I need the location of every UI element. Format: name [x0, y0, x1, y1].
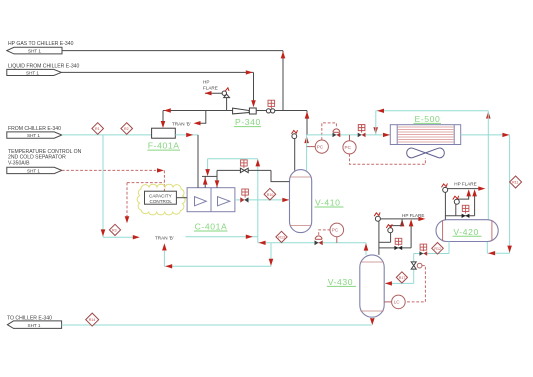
- wire: drop x=198 into compressor: [197, 135, 199, 188]
- svg-text:CONTROL: CONTROL: [150, 199, 173, 204]
- label F-401A: [147, 141, 180, 151]
- wire: signal drop to capacity control: [163, 170, 165, 191]
- wire: PSV#2 V-420 outlet: [457, 196, 469, 199]
- node R14 diamond: [86, 313, 99, 326]
- arrow right into E-500: [383, 133, 390, 137]
- wire: return to V-420 bottom y=253.2: [487, 252, 509, 254]
- wire: E-500 top line y=110.8: [376, 110, 489, 112]
- node: off-page connector TO CHILLER E-340 SHT 1: [7, 315, 62, 328]
- compressor C-401A body: [187, 188, 235, 212]
- svg-text:R13: R13: [278, 236, 285, 240]
- relief valve PSV V-420 #1: [442, 184, 448, 193]
- svg-text:V-430: V-430: [328, 277, 353, 287]
- arrow down into F-401A: [161, 121, 166, 128]
- valve (closed) on V-430 bypass: [394, 246, 402, 250]
- wire: V-430 flare bypass y=247.9: [379, 247, 411, 249]
- wire: recycle drop x=207.6: [207, 159, 209, 170]
- node: off-page connector HP GAS TO CHILLER E-340 SHT 1: [7, 41, 74, 54]
- arrow up toward TRAN B label: [162, 243, 167, 250]
- arrow down into P-340 inlet box: [251, 100, 256, 107]
- arrow right to TRAN B: [133, 235, 140, 239]
- wire: riser3 V-420: [474, 196, 476, 216]
- svg-text:R2: R2: [124, 127, 129, 131]
- wire: train B return riser x=164.4: [163, 251, 165, 266]
- arrow up on recycle riser: [256, 159, 261, 166]
- arrow down V-430 bottoms: [370, 318, 375, 325]
- exchanger E-500: [390, 125, 460, 145]
- svg-text:HP: HP: [203, 80, 209, 85]
- node: off-page connector FROM CHILLER E-340 SHT 1: [7, 126, 62, 138]
- wire: LC signal (dashed): [405, 266, 425, 302]
- wire: capacity control to compressor: [176, 197, 187, 199]
- arrow up riser3 V-420: [472, 189, 477, 196]
- arrow down signal to R3: [125, 216, 130, 223]
- svg-text:SHT 1: SHT 1: [28, 323, 41, 328]
- svg-text:R3: R3: [112, 229, 117, 233]
- arrow right on F-401A outlet: [186, 133, 193, 137]
- arrow down on drop: [101, 229, 106, 236]
- motor valve on header: [358, 125, 366, 138]
- wire: V-430 overhead line y=242.8: [258, 242, 366, 244]
- check valve circles after P-340: [266, 109, 274, 113]
- arrow up from cell1: [203, 177, 208, 184]
- valve on balance line: [240, 168, 248, 172]
- relief valve to HP flare: [205, 88, 230, 111]
- svg-text:C-401A: C-401A: [195, 222, 228, 232]
- arrow left to HP flare: [205, 91, 212, 95]
- svg-text:R11: R11: [512, 181, 518, 185]
- capacity control highlight cloud: [137, 184, 185, 215]
- label P-340: [234, 117, 261, 127]
- wire: recycle riser x=257.8: [257, 159, 259, 243]
- instrument PC (suction controller): [330, 223, 344, 243]
- wire: y=237.2 to TRAN B: [103, 236, 133, 238]
- arrow right to HP flare (V-430): [418, 217, 425, 221]
- wire: PSV#2 V-430 inlet: [379, 241, 391, 243]
- discharge header y=134.9: [307, 134, 390, 136]
- wire: P-340 suction line y=110.5: [163, 110, 307, 112]
- vessel V-420: [436, 220, 498, 242]
- wire: liquid line y=72.4: [61, 71, 253, 73]
- label V-430: [327, 277, 356, 287]
- instrument PC#1: [307, 140, 329, 153]
- arrow up into HP gas line: [281, 51, 286, 58]
- wire: signal branch y=182.6: [127, 182, 164, 184]
- svg-text:LC: LC: [394, 300, 401, 305]
- wire: from-chiller process line y=134.9: [62, 134, 152, 136]
- svg-text:HP GAS TO CHILLER E-340: HP GAS TO CHILLER E-340: [8, 41, 74, 47]
- arrow up out of V-430: [364, 243, 369, 250]
- wire: riser3 V-430: [410, 226, 412, 248]
- wire: train B return y=266.3: [164, 265, 271, 267]
- svg-text:SHT 1: SHT 1: [28, 49, 41, 54]
- wire: V-430 relief riser: [378, 221, 380, 255]
- label C-401A: [194, 222, 228, 232]
- instrument square above balance valve: [241, 160, 248, 168]
- node R3 diamond: [109, 224, 120, 235]
- svg-text:F-401A: F-401A: [148, 141, 180, 151]
- svg-text:FLARE: FLARE: [203, 85, 218, 90]
- svg-text:HP FLARE: HP FLARE: [454, 182, 476, 187]
- pump P-340 inlet box: [249, 108, 256, 114]
- wire: PSV#2 V-430 outlet: [390, 226, 402, 228]
- arrow right on signal: [157, 168, 164, 172]
- svg-text:SHT 1: SHT 1: [27, 169, 40, 174]
- svg-text:R10: R10: [267, 193, 274, 197]
- wire: F-401A inlet drop x=163: [162, 111, 164, 122]
- label V-410: [315, 198, 344, 208]
- arrow left to TRAN B label: [194, 121, 201, 125]
- arrow right on E-500 outlet: [502, 133, 509, 137]
- relief valve on V-410 top: [292, 130, 298, 170]
- arrow down on branch: [269, 259, 274, 266]
- node: CAPACITY CONTROL box: [145, 191, 177, 204]
- wire: to-chiller line y=325: [62, 324, 372, 326]
- wire: HP gas header y=50.6: [62, 50, 283, 52]
- wire: V-420 flare bypass y=215.8: [445, 215, 474, 217]
- instrument square above bypass valve: [462, 205, 469, 213]
- node R11 diamond: [510, 176, 522, 188]
- svg-text:FROM CHILLER E-340: FROM CHILLER E-340: [8, 126, 61, 132]
- wire: cell2 top stub: [216, 170, 218, 187]
- wire: suction line corner x=307 down to header: [306, 111, 308, 135]
- wire: drop x=103 from from-chiller line: [102, 135, 104, 237]
- arrow down from E-500 top line into header: [373, 127, 378, 134]
- instrument square above letdown valve: [420, 244, 427, 251]
- wire: signal drop x=127 to R3: [126, 183, 128, 217]
- valve (closed) on V-420 bypass: [462, 214, 470, 218]
- arrow down into cell2: [215, 180, 220, 187]
- arrow right on liquid line: [246, 70, 253, 74]
- node: off-page connector TEMPERATURE CONTROL SHT 1: [7, 149, 82, 174]
- label E-500: [414, 114, 442, 124]
- label V-420: [453, 227, 482, 237]
- wire: branch x=271 down: [270, 243, 272, 266]
- wire: V-420 flare header: [445, 188, 478, 190]
- svg-text:R1: R1: [95, 127, 100, 131]
- wire: E-500 feed riser x=375.8: [375, 111, 377, 135]
- wire: balance line y=170.4: [217, 169, 271, 171]
- arrow right into V-410: [282, 198, 289, 202]
- node: off-page connector LIQUID FROM CHILLER E-340 SHT 1: [7, 63, 80, 75]
- node R2 diamond: [121, 123, 133, 135]
- arrow up riser2 V-420: [466, 189, 471, 196]
- arrow left on train B return: [165, 264, 172, 268]
- relief valve PSV V-430 #1: [374, 212, 380, 221]
- wire: V-420 bottom stub x=487.3: [486, 242, 488, 254]
- arrow left on return: [488, 251, 495, 255]
- vessel V-410: [290, 170, 312, 233]
- svg-text:R14: R14: [89, 318, 96, 322]
- svg-text:V-420: V-420: [453, 227, 478, 237]
- vessel V-430: [360, 255, 384, 317]
- letdown control valve: [419, 251, 427, 255]
- discharge control valve: [240, 197, 248, 202]
- arrow left on E-500 top line: [377, 109, 384, 113]
- wire: F-401A outlet: [175, 134, 198, 136]
- valve: suction PC control valve: [315, 236, 323, 245]
- svg-text:HP FLARE: HP FLARE: [402, 213, 424, 218]
- node R1 diamond: [92, 123, 104, 135]
- gate valve on letdown drop: [411, 262, 422, 269]
- wire: cell1 top stub: [204, 176, 206, 187]
- instrument LC: [384, 295, 405, 309]
- wire: cooler return drop x=509.6: [509, 135, 511, 253]
- wire: recycle line y=158.7: [208, 158, 258, 160]
- svg-text:TRAN ’B’: TRAN ’B’: [172, 122, 191, 127]
- wire: V-410 overhead riser: [306, 135, 308, 171]
- node R17 diamond: [396, 272, 407, 283]
- arrow left on overhead line: [259, 241, 266, 245]
- node R12 diamond: [432, 243, 444, 255]
- wire: temperature control signal (dashed): [62, 169, 156, 171]
- svg-text:PC: PC: [332, 228, 339, 233]
- wire: TRAN B stub: [200, 111, 206, 124]
- svg-text:PC: PC: [317, 144, 324, 149]
- wire: liquid drop x=253.5 into P-340: [253, 72, 255, 101]
- svg-text:SHT 1: SHT 1: [27, 133, 40, 138]
- arrow left into V-430: [385, 281, 392, 285]
- relief valve PSV V-430 #2: [386, 224, 393, 242]
- compressor discharge line y=199.9: [235, 199, 290, 201]
- wire: signal PC to valve (dashed): [319, 230, 330, 235]
- instrument square above circles: [268, 100, 275, 109]
- wire: V-420 overhead riser x=488.3: [487, 111, 489, 220]
- node R10 diamond: [264, 188, 276, 200]
- wire: V-420 relief riser: [444, 189, 446, 220]
- svg-text:R12: R12: [434, 247, 441, 251]
- arrow up from V-410 riser: [304, 136, 309, 143]
- control valve (dome) on header: [333, 129, 341, 137]
- arrow up riser2 V-430: [400, 219, 405, 226]
- arrow up at x=488.3: [486, 111, 491, 118]
- svg-text:E-500: E-500: [415, 114, 441, 124]
- svg-text:SHT 1: SHT 1: [26, 71, 39, 76]
- svg-text:CAPACITY: CAPACITY: [149, 193, 172, 198]
- svg-text:P-340: P-340: [235, 117, 261, 127]
- svg-text:V-410: V-410: [315, 198, 340, 208]
- svg-text:LIQUID FROM CHILLER E-340: LIQUID FROM CHILLER E-340: [8, 63, 79, 69]
- svg-text:TRAN ’B’: TRAN ’B’: [155, 235, 174, 240]
- arrow left on suction line: [164, 108, 171, 112]
- pump P-340 eductor cone: [233, 108, 250, 114]
- arrow down on return drop: [507, 246, 512, 253]
- node R13 diamond: [276, 231, 287, 242]
- arrow up riser3 V-430: [409, 219, 414, 226]
- wire: E-500 outlet y=134.9: [461, 134, 510, 136]
- instrument square above V-430 bypass valve: [395, 238, 402, 245]
- relief valve PSV V-420 #2: [453, 196, 460, 216]
- wire: suction tie y=236.7: [186, 236, 258, 238]
- instrument PC#2: [343, 135, 356, 154]
- wire: PC#2 signal to E-500 fan (dashed): [350, 154, 426, 164]
- filter F-401A: [152, 128, 176, 138]
- arrow down recycle into header: [205, 169, 210, 176]
- wire: riser x=283 to HP gas line: [282, 51, 284, 111]
- wire: PC#1 signal (dashed): [322, 123, 337, 140]
- arrow right to HP flare: [478, 186, 485, 190]
- arrow up at corner x=307: [305, 111, 310, 118]
- svg-text:V-350A/B: V-350A/B: [8, 160, 30, 166]
- svg-text:PC: PC: [345, 145, 352, 150]
- wire: balance line drop into V-410: [271, 170, 290, 181]
- instrument square above discharge valve: [242, 189, 249, 198]
- wire: V-430 flare header: [379, 218, 421, 220]
- svg-text:R17: R17: [399, 276, 406, 280]
- wire: V-430 overhead stub: [365, 243, 367, 255]
- wire: mini header y=176.4: [202, 175, 217, 177]
- wire: V-420 letdown to V-430: [448, 242, 450, 254]
- E-500 fan: [407, 148, 445, 158]
- arrow right on suction tie: [246, 235, 253, 239]
